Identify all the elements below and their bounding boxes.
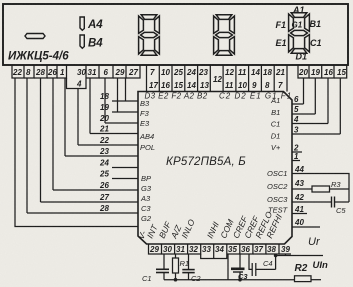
left wires from display to IC	[15, 78, 138, 227]
wires from display cells 20,19,16,15 down to pins 6,5,4,3	[303, 78, 305, 104]
wire cell26 to pin26	[52, 78, 54, 190]
junction dot R1-rail	[174, 278, 178, 282]
display pin cell 8	[24, 65, 34, 78]
wire cell28 to pin27	[40, 78, 42, 202]
wire pin35 to rail	[227, 254, 229, 280]
IC U1 КР572ПВ5А,Б box	[138, 92, 292, 245]
display pin cell 6	[99, 65, 113, 78]
oscillator pins 44,43,42,41 and 40	[292, 174, 349, 228]
wire cell1 to pin23	[64, 78, 66, 156]
display pin cell 20	[298, 65, 309, 78]
display pin cell 31	[86, 65, 99, 78]
digit HG1.1 "8" with segment labels	[289, 13, 310, 54]
display pin cell 26	[47, 65, 57, 78]
capacitor C1 branch	[156, 254, 169, 280]
display pin cell 30/4 (stacked)	[67, 65, 87, 89]
resistor R3	[312, 186, 330, 192]
junction dot C3-rail	[238, 278, 242, 282]
display pin cell 28	[34, 65, 47, 78]
wire cell31 to pin21	[89, 78, 91, 134]
digit HG1.3 "8"	[139, 15, 160, 56]
left pin stub lines pins 18-28	[27, 101, 138, 213]
wire cell6 to pin20	[104, 78, 106, 123]
bottom pin cells 29-39	[149, 244, 292, 259]
display pin cell 16	[322, 65, 334, 78]
capacitor C3 branch (polarized)	[231, 254, 245, 280]
capacitor C2 branch	[182, 254, 194, 280]
resistor R1 branch	[173, 254, 179, 280]
stacked bridge cells between display and IC: dividers	[147, 65, 288, 92]
bottom rail with R2 to UIn	[164, 276, 321, 282]
wire cell22 to V- corner	[15, 78, 138, 227]
right pin stubs 6,5,4,3,2,1	[292, 78, 340, 161]
half-digit segment A4	[80, 17, 84, 30]
half-digit segment B4	[80, 35, 84, 48]
paper scan noise	[0, 0, 1, 1]
wire cell30/4 to pin22	[77, 88, 79, 145]
Ur lower line from pins 38/39	[276, 255, 323, 257]
display pin cell 29	[113, 65, 126, 78]
junction dot pin38	[274, 254, 278, 258]
display pin cell 19	[309, 65, 322, 78]
capacitor C4 branch	[249, 254, 286, 276]
display pin cell 15	[334, 65, 347, 78]
display pin cell 27	[126, 65, 140, 78]
wire cell29 to pin19	[117, 78, 119, 112]
display pin cell 22	[12, 65, 24, 78]
minus sign segment	[25, 34, 45, 39]
display pin cell 1	[57, 65, 67, 78]
wire cell8 to pin28	[26, 78, 28, 213]
digit HG1.2 "8"	[214, 15, 235, 56]
wire cell27 to pin18	[125, 78, 127, 101]
display HG1 box ИЖКЦ5-4/6	[3, 4, 348, 65]
capacitor C5	[332, 197, 335, 208]
